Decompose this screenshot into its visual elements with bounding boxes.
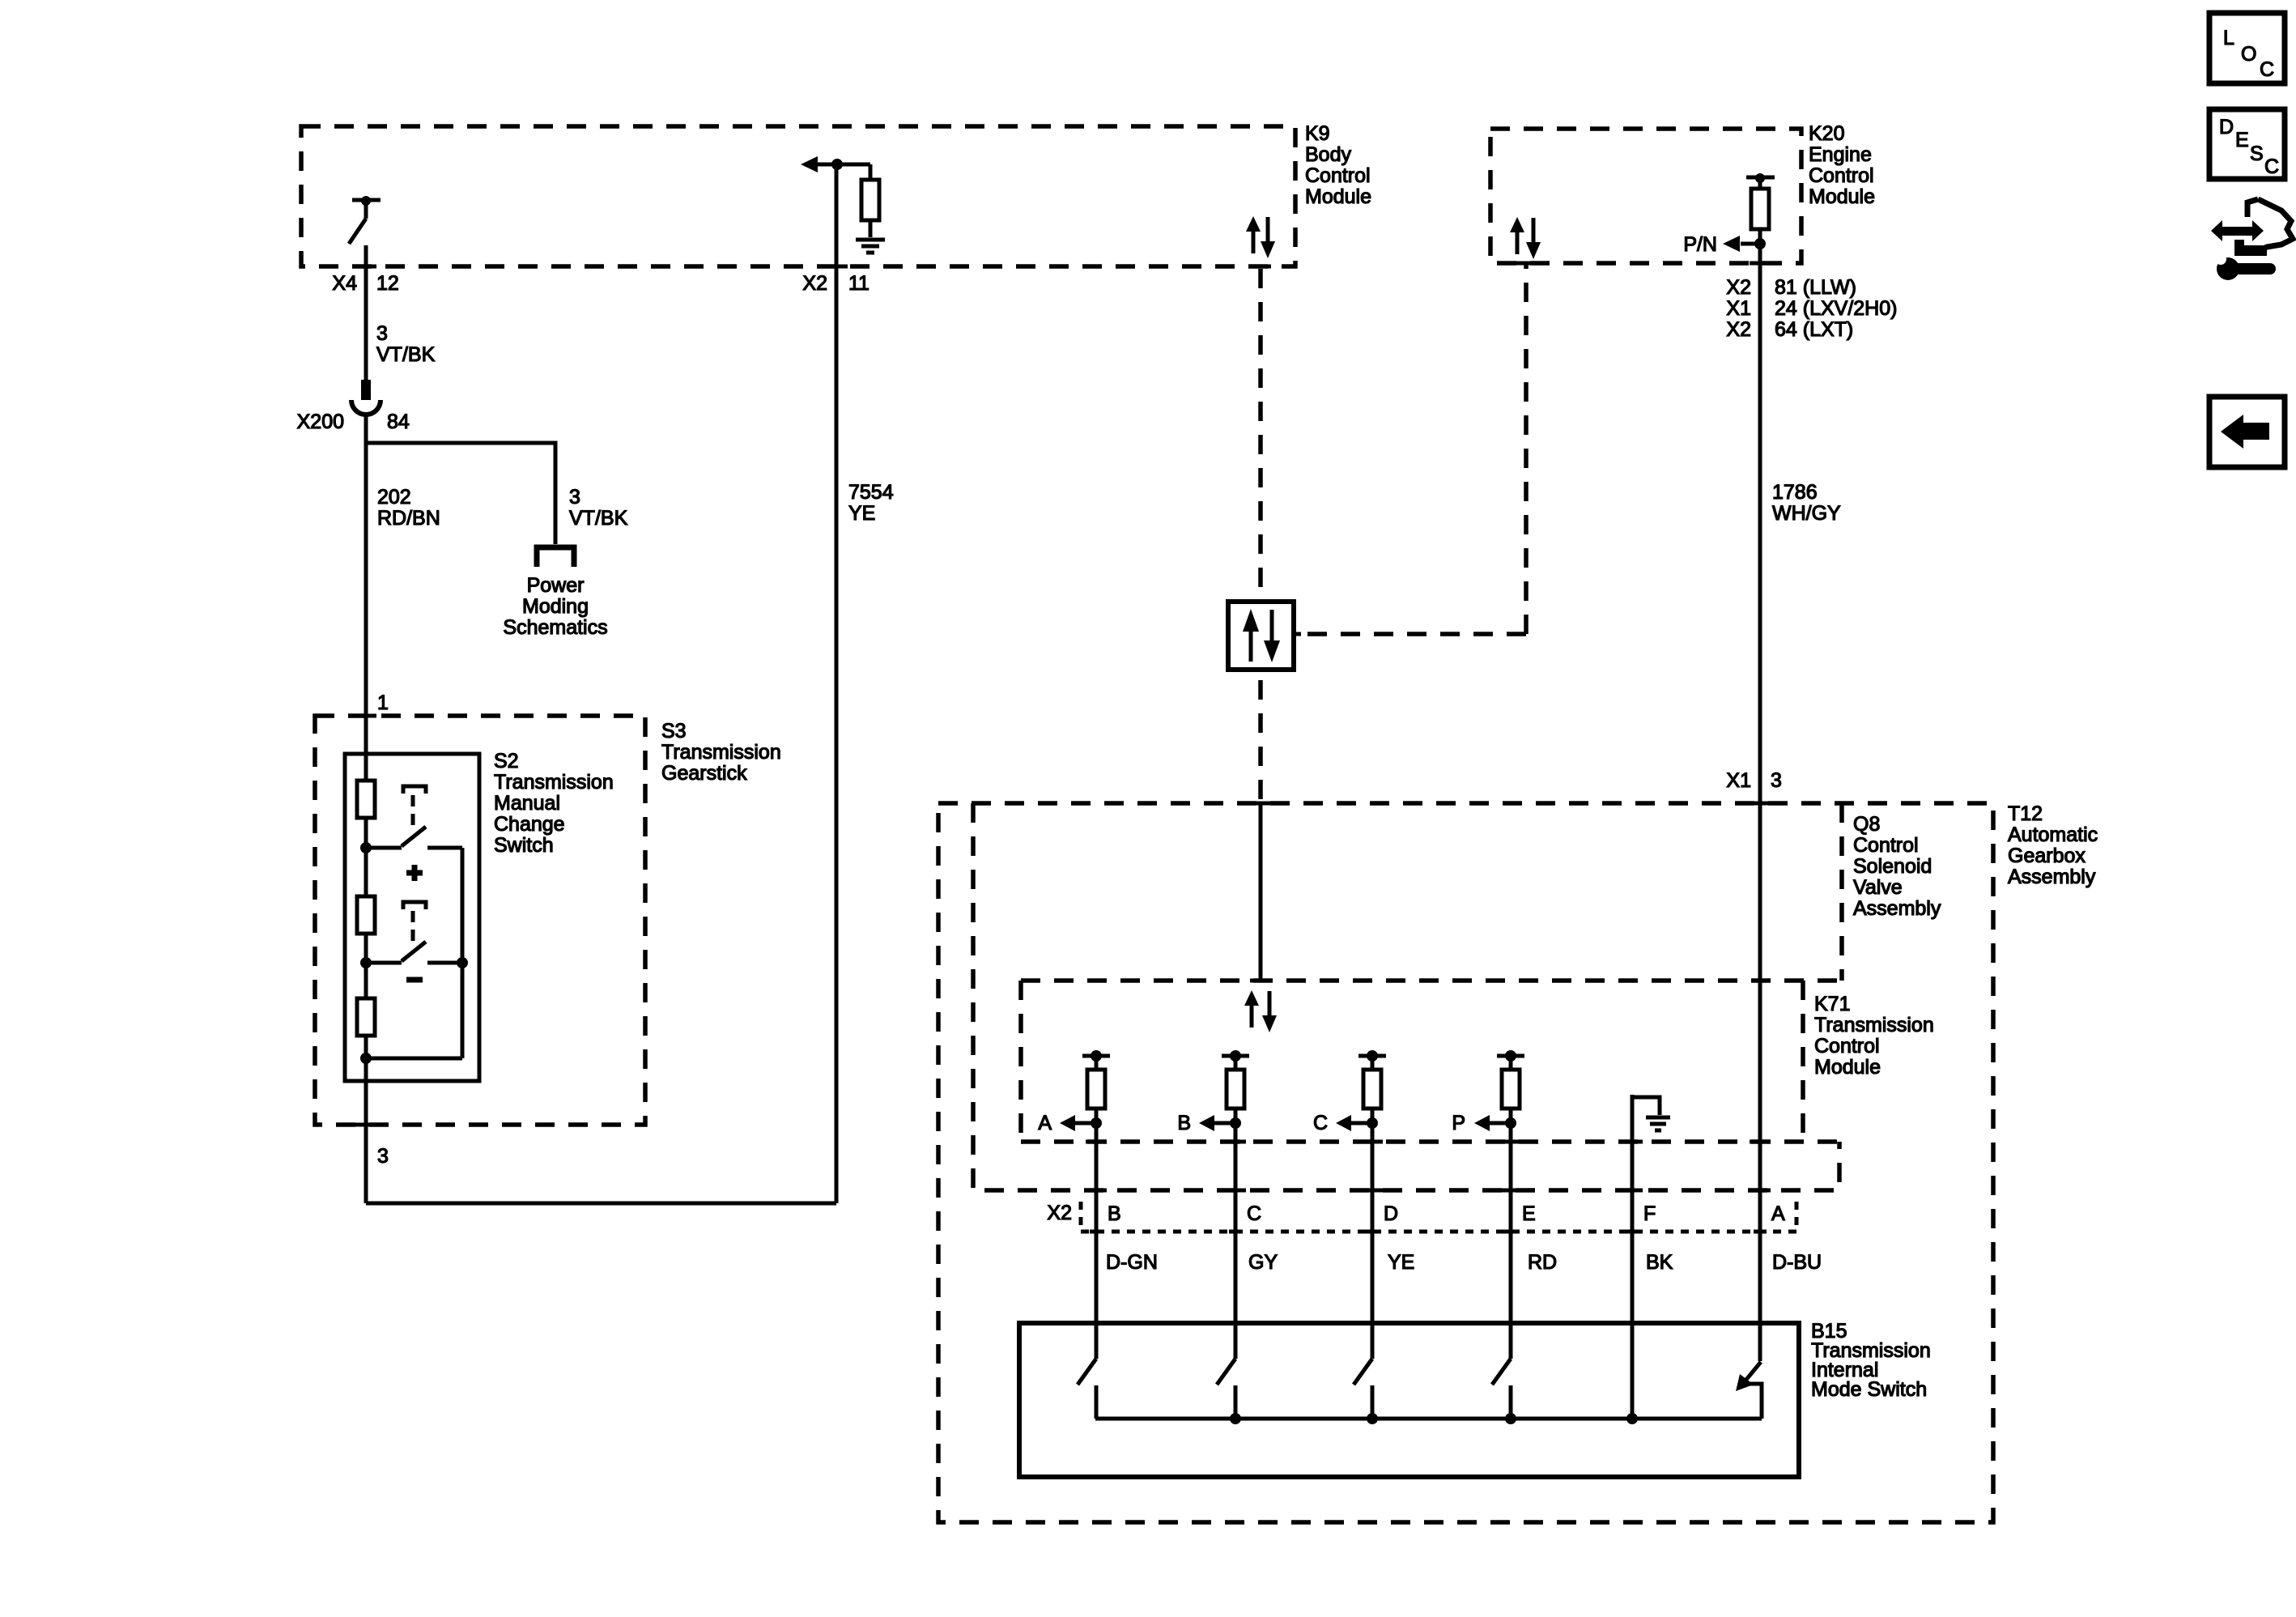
svg-text:Schematics: Schematics [503,616,607,639]
svg-text:Transmission: Transmission [494,771,614,794]
svg-text:YE: YE [848,502,875,525]
svg-text:11: 11 [848,272,870,295]
svg-text:1: 1 [377,691,389,714]
svg-text:Solenoid: Solenoid [1853,855,1932,878]
svg-text:3: 3 [377,1145,389,1168]
svg-text:1786: 1786 [1772,481,1818,504]
svg-text:X200: X200 [297,411,344,433]
svg-text:P/N: P/N [1683,233,1717,256]
svg-text:Control: Control [1809,164,1874,187]
svg-text:S: S [2250,143,2264,165]
svg-text:C: C [1313,1112,1328,1134]
svg-text:K71: K71 [1814,993,1850,1015]
svg-text:Mode Switch: Mode Switch [1811,1378,1927,1401]
svg-text:X1: X1 [1726,769,1751,792]
svg-text:3: 3 [376,322,388,345]
svg-text:Module: Module [1814,1056,1881,1079]
svg-text:A: A [1038,1112,1052,1134]
svg-text:Automatic: Automatic [2008,823,2098,846]
svg-text:24 (LXV/2H0): 24 (LXV/2H0) [1775,297,1897,320]
svg-text:B: B [1108,1202,1121,1225]
svg-text:D-GN: D-GN [1106,1251,1158,1274]
svg-text:Moding: Moding [522,595,589,618]
svg-text:RD/BN: RD/BN [377,507,440,530]
svg-text:3: 3 [569,486,580,509]
svg-text:Power: Power [527,574,585,597]
svg-text:Switch: Switch [494,834,554,857]
svg-text:YE: YE [1388,1251,1414,1274]
svg-text:Control: Control [1305,164,1371,187]
svg-text:64 (LXT): 64 (LXT) [1775,318,1853,341]
svg-text:Change: Change [494,813,565,836]
svg-text:K9: K9 [1305,122,1330,145]
svg-text:Valve: Valve [1853,876,1903,899]
svg-text:X4: X4 [332,272,357,295]
svg-text:Gearbox: Gearbox [2008,845,2086,867]
svg-text:D-BU: D-BU [1772,1251,1822,1274]
svg-text:F: F [1643,1202,1656,1225]
svg-text:7554: 7554 [848,481,894,504]
svg-text:O: O [2241,43,2256,66]
svg-text:D: D [2219,116,2234,138]
svg-text:Q8: Q8 [1853,813,1880,836]
svg-text:GY: GY [1248,1251,1278,1274]
svg-text:E: E [2235,129,2249,151]
svg-text:84: 84 [387,411,410,433]
svg-text:Assembly: Assembly [2008,866,2096,888]
svg-text:Gearstick: Gearstick [661,762,747,785]
svg-text:BK: BK [1646,1251,1673,1274]
svg-text:Assembly: Assembly [1853,897,1941,920]
svg-text:VT/BK: VT/BK [376,343,436,366]
svg-text:A: A [1771,1202,1785,1225]
svg-text:C: C [1247,1202,1261,1225]
svg-text:Transmission: Transmission [1814,1014,1934,1036]
svg-text:X2: X2 [1726,318,1751,341]
svg-text:Manual: Manual [494,792,560,815]
svg-text:Body: Body [1305,143,1351,166]
svg-text:X2: X2 [1726,276,1751,299]
svg-text:S3: S3 [661,720,687,743]
svg-text:3: 3 [1771,769,1782,792]
svg-text:C: C [2264,155,2279,178]
svg-text:81 (LLW): 81 (LLW) [1775,276,1856,299]
svg-text:K20: K20 [1809,122,1844,145]
svg-text:P: P [1452,1112,1465,1134]
svg-text:X2: X2 [1047,1202,1072,1224]
svg-text:Module: Module [1809,185,1875,208]
svg-text:B: B [1177,1112,1191,1134]
svg-text:Module: Module [1305,185,1371,208]
svg-text:12: 12 [376,272,399,295]
svg-text:X2: X2 [802,272,827,295]
svg-text:Transmission: Transmission [661,741,781,764]
svg-text:Control: Control [1853,834,1919,857]
svg-text:202: 202 [377,486,411,509]
svg-text:X1: X1 [1726,297,1751,320]
svg-text:E: E [1522,1202,1536,1225]
svg-text:D: D [1384,1202,1398,1225]
svg-text:WH/GY: WH/GY [1772,502,1841,525]
svg-text:Engine: Engine [1809,143,1872,166]
svg-text:S2: S2 [494,750,519,772]
svg-text:C: C [2260,58,2274,81]
svg-text:Control: Control [1814,1035,1880,1057]
svg-text:VT/BK: VT/BK [569,507,628,530]
svg-text:L: L [2223,27,2234,49]
svg-text:T12: T12 [2008,802,2043,825]
svg-text:RD: RD [1528,1251,1557,1274]
